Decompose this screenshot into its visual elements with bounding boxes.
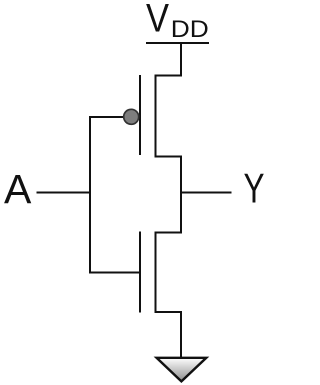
svg-text:DD: DD bbox=[171, 16, 209, 43]
svg-text:V: V bbox=[146, 0, 169, 41]
svg-text:Y: Y bbox=[244, 165, 265, 212]
svg-text:A: A bbox=[4, 166, 32, 212]
